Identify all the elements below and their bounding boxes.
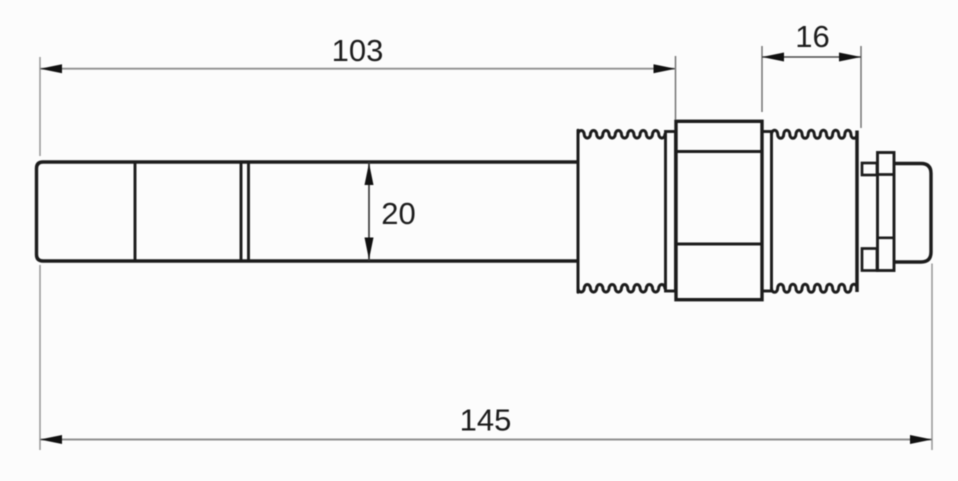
- dimension line 103: [40, 68, 676, 70]
- hex nut body: [676, 121, 762, 299]
- washer left of hex nut: [666, 132, 676, 292]
- extension line 145 right: [931, 264, 933, 451]
- shaft double line B: [247, 162, 250, 261]
- arrowhead 16 left: [762, 53, 784, 62]
- shaft double line A: [240, 162, 243, 261]
- thread section 2: [772, 130, 858, 292]
- connector cap: [894, 164, 931, 263]
- arrowhead 20 bottom: [365, 238, 374, 260]
- extension line 16 left: [761, 46, 763, 112]
- arrowhead 103 right: [654, 64, 676, 73]
- extension line 103 right: [675, 56, 677, 120]
- connector nut facet line upper: [878, 173, 895, 176]
- connector shoulder bottom: [862, 249, 877, 271]
- dimension line 16: [762, 56, 861, 58]
- connector nut column: [878, 153, 895, 271]
- probe shaft body: [37, 162, 579, 261]
- arrowhead 145 right: [910, 435, 932, 444]
- dimension line 20: [368, 162, 370, 261]
- arrowhead 16 right: [839, 53, 861, 62]
- svg-text:20: 20: [381, 196, 415, 231]
- arrowhead 145 left: [40, 435, 62, 444]
- hex nut facet line lower: [676, 243, 762, 246]
- connector shoulder top: [862, 163, 877, 175]
- thread section 1: [578, 130, 665, 292]
- extension line left (top): [39, 57, 41, 156]
- extension line 16 right: [860, 46, 862, 128]
- thread end flange plate: [855, 131, 859, 293]
- svg-text:103: 103: [332, 33, 384, 68]
- shaft segment line 1: [134, 162, 137, 261]
- dimension line 145: [40, 439, 932, 441]
- svg-text:16: 16: [795, 19, 829, 54]
- washer right of hex nut: [762, 132, 772, 292]
- arrowhead 103 left: [40, 64, 62, 73]
- arrowhead 20 top: [365, 163, 374, 185]
- connector nut facet line lower: [878, 236, 895, 239]
- extension line left (bottom): [39, 265, 41, 450]
- svg-text:145: 145: [460, 403, 512, 438]
- hex nut facet line upper: [676, 150, 762, 153]
